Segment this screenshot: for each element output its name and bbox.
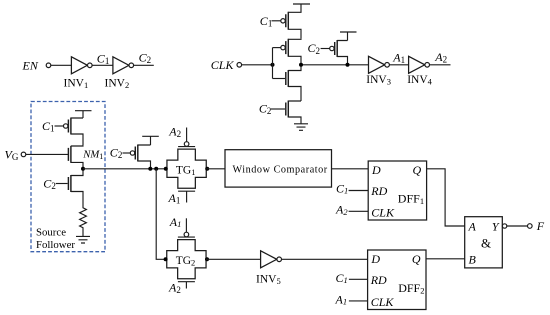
wire node to TG1 <box>83 168 167 170</box>
transmission gate TG1 <box>167 149 206 188</box>
svg-text:Q: Q <box>412 252 421 266</box>
wire VG to NM1 gate <box>26 153 68 155</box>
svg-text:Source: Source <box>36 227 66 239</box>
svg-text:INV4: INV4 <box>407 74 432 87</box>
wire DFF2 Q to AND B <box>426 258 465 260</box>
wire TG2 to INV5 <box>206 258 261 260</box>
svg-text:TG2: TG2 <box>176 255 196 268</box>
svg-text:F: F <box>536 219 545 233</box>
node junction TG2 input <box>164 257 168 261</box>
flip-flop DFF2 <box>368 250 426 310</box>
node junction TG1 output <box>205 167 209 171</box>
svg-text:Q: Q <box>413 163 422 177</box>
box Source Follower (dashed) <box>31 102 105 252</box>
wire C1 to DFF1 RD <box>349 190 369 192</box>
svg-text:INV2: INV2 <box>105 77 130 90</box>
wire C1 to DFF2 RD <box>349 278 368 280</box>
svg-text:CLK: CLK <box>371 295 395 309</box>
svg-text:D: D <box>371 163 381 177</box>
wire comparator to DFF1 D <box>332 168 369 170</box>
ground CLK stack <box>294 124 308 131</box>
node junction CLK gate bus <box>271 63 275 67</box>
node junction TG2 output <box>205 257 209 261</box>
wire gate bus vertical <box>272 48 274 79</box>
svg-text:B: B <box>469 252 477 266</box>
wire TG1 top control <box>186 128 188 142</box>
wire INV1 to INV2 <box>92 64 113 66</box>
node junction stack output <box>299 63 303 67</box>
node junction gating PMOS drain <box>346 63 350 67</box>
svg-text:RD: RD <box>370 184 387 198</box>
node junction TG1 input <box>164 167 168 171</box>
power VDD rail top stack <box>293 3 310 5</box>
wire TG2 bottom control <box>178 282 195 289</box>
wire branch down to TG2 <box>156 169 167 259</box>
power VDD rail (C2 PMOS near INV3) <box>340 32 357 41</box>
node junction PMOS drain <box>148 167 152 171</box>
wire AND Y to F <box>507 225 528 227</box>
svg-text:D: D <box>370 252 380 266</box>
terminal VG <box>21 152 26 157</box>
terminal CLK <box>237 63 242 68</box>
svg-text:RD: RD <box>370 273 387 287</box>
resistor load <box>80 207 87 237</box>
transistor NMOS M3 (CLK inverter pull-down) <box>273 78 286 80</box>
node source follower output junction <box>81 167 85 171</box>
wire INV4 output <box>430 64 451 66</box>
block Window Comparator <box>225 150 332 187</box>
flip-flop DFF1 <box>368 161 426 220</box>
svg-text:INV1: INV1 <box>64 77 89 90</box>
power VDD rail source follower <box>75 111 92 118</box>
wire TG1 to window comparator <box>206 168 225 170</box>
terminal F <box>528 224 533 229</box>
wire A2 to DFF1 CLK <box>349 210 369 212</box>
svg-text:Follower: Follower <box>36 239 75 251</box>
ground source follower <box>76 236 90 243</box>
svg-text:TG1: TG1 <box>176 164 196 177</box>
svg-text:&: & <box>481 236 491 251</box>
bubble AND output <box>502 224 506 228</box>
wire TG1 bottom control <box>178 191 195 202</box>
transistor PMOS M2 (CLK inverter pull-up) <box>273 47 281 49</box>
gate AND <box>465 217 503 268</box>
wire INV5 to DFF2 D <box>282 258 368 260</box>
inverter INV4 <box>409 56 425 73</box>
svg-text:INV3: INV3 <box>366 74 391 87</box>
inverter INV3 <box>369 56 385 73</box>
wire INV2 output <box>134 64 154 66</box>
power VDD rail (C2 PMOS near box) <box>142 136 159 145</box>
wire EN to INV1 <box>51 64 72 66</box>
transmission gate TG2 <box>167 240 206 279</box>
svg-text:INV5: INV5 <box>256 273 281 286</box>
svg-text:CLK: CLK <box>211 58 235 72</box>
svg-text:EN: EN <box>22 58 39 72</box>
svg-text:Window Comparator: Window Comparator <box>233 165 328 176</box>
wire INV3 to INV4 <box>389 64 408 66</box>
inverter INV2 <box>113 57 129 74</box>
svg-text:A: A <box>468 219 477 233</box>
wire CLK stack output <box>301 64 369 66</box>
wire CLK to gate bus <box>242 64 273 66</box>
wire A1 to DFF2 CLK <box>349 300 368 302</box>
node junction branch to TG2 <box>154 167 158 171</box>
wire DFF1 Q to AND A <box>427 169 465 226</box>
wire TG2 top control <box>185 218 187 232</box>
terminal EN <box>46 63 51 68</box>
inverter INV5 <box>261 251 277 268</box>
inverter INV1 <box>71 57 87 74</box>
svg-text:CLK: CLK <box>371 205 395 219</box>
